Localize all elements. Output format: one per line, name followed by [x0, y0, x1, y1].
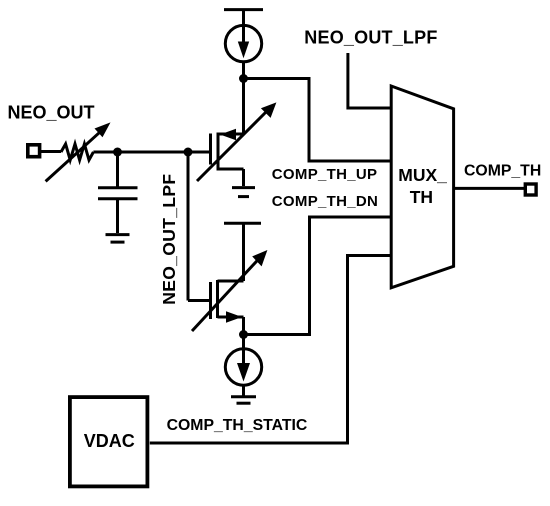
ground (I2)	[231, 397, 256, 404]
supply rail (lower transistor drain)	[224, 223, 261, 281]
node D (source of M2)	[239, 330, 248, 339]
ground (M1 source)	[232, 188, 255, 197]
label COMP_TH_STATIC	[167, 417, 308, 434]
wire COMP_TH_DN	[244, 217, 391, 335]
label NEO_OUT_LPF (top)	[304, 28, 437, 48]
svg-text:NEO_OUT: NEO_OUT	[8, 102, 95, 122]
wire terminal to resistor	[41, 150, 61, 153]
label COMP_TH	[464, 162, 541, 179]
current source I2 (bottom)	[225, 335, 261, 396]
wire COMP_TH_UP	[244, 79, 391, 162]
block VDAC	[70, 397, 147, 486]
svg-text:COMP_TH_UP: COMP_TH_UP	[272, 166, 378, 183]
wire COMP_TH output	[454, 187, 525, 190]
node B (gate/LPF junction)	[184, 148, 193, 157]
ground (capacitor)	[106, 235, 130, 243]
node C (drain of M1)	[239, 74, 248, 83]
label COMP_TH_UP	[272, 166, 378, 183]
svg-text:VDAC: VDAC	[84, 431, 135, 451]
transistor M2 (lower, variable)	[192, 250, 267, 335]
svg-text:MUX_: MUX_	[398, 165, 447, 185]
svg-text:COMP_TH_DN: COMP_TH_DN	[272, 193, 378, 210]
resistor R1 (variable)	[46, 122, 111, 181]
wire resistor to gate	[93, 151, 209, 154]
terminal COMP_TH	[525, 184, 536, 195]
wire COMP_TH_STATIC	[150, 256, 391, 444]
transistor M1 (upper, variable)	[197, 79, 276, 187]
mux U1 MUX_TH	[391, 86, 453, 288]
current source I1 (top)	[225, 25, 261, 78]
label NEO_OUT	[8, 102, 95, 122]
svg-text:TH: TH	[410, 187, 433, 207]
supply rail (top)	[224, 10, 263, 27]
capacitor C1 (LPF)	[98, 152, 138, 233]
label COMP_TH_DN	[272, 193, 378, 210]
node A (cap junction)	[113, 148, 122, 157]
terminal NEO_OUT	[28, 145, 40, 157]
wire NEO_OUT_LPF to mux	[348, 53, 391, 108]
wire NEO_OUT_LPF vertical	[188, 152, 209, 301]
svg-text:NEO_OUT_LPF: NEO_OUT_LPF	[304, 28, 437, 48]
label NEO_OUT_LPF (vertical)	[159, 174, 179, 305]
svg-text:COMP_TH: COMP_TH	[464, 162, 541, 179]
svg-text:COMP_TH_STATIC: COMP_TH_STATIC	[167, 417, 308, 434]
svg-text:NEO_OUT_LPF: NEO_OUT_LPF	[159, 174, 179, 305]
